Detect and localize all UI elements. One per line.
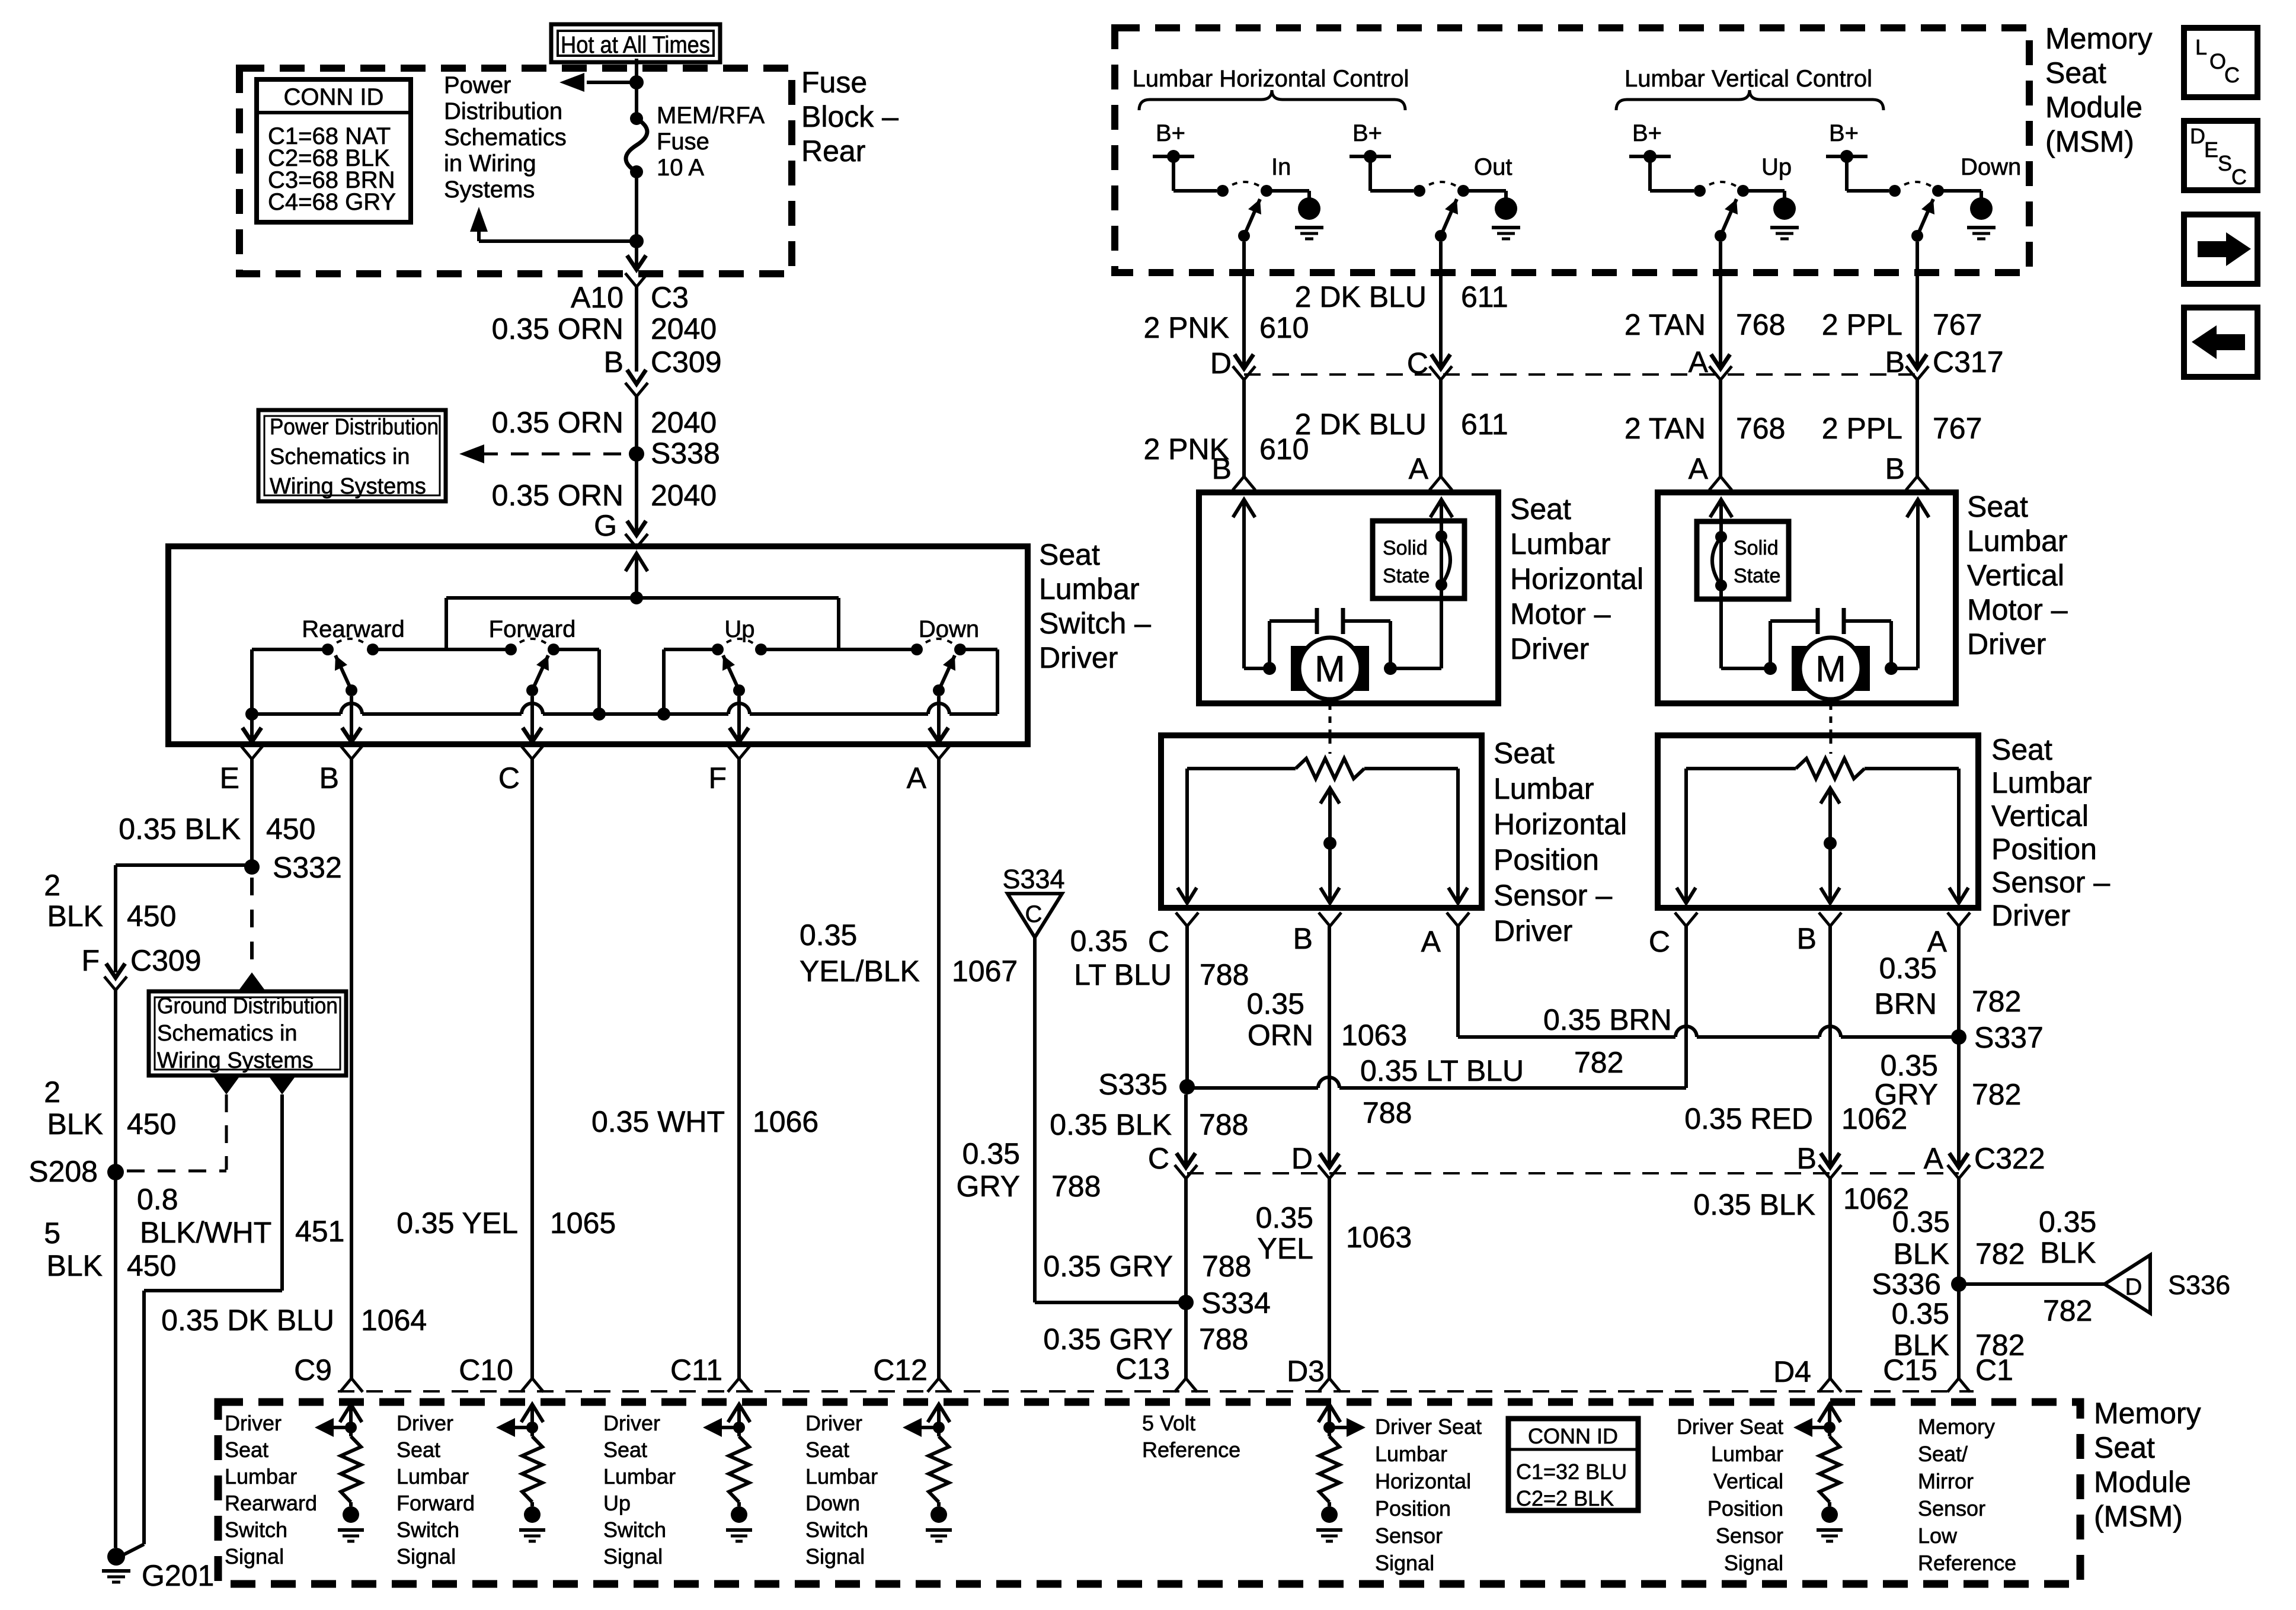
- svg-text:S336: S336: [2168, 1270, 2230, 1300]
- svg-text:BLK: BLK: [1893, 1237, 1949, 1270]
- off-page connector C S334: [1002, 864, 1064, 937]
- wire blade pivot to pin F: [730, 696, 749, 742]
- MSM input C10 (resistor+ground): [496, 1404, 545, 1541]
- svg-text:Driver: Driver: [1510, 632, 1589, 665]
- svg-text:Low: Low: [1918, 1523, 1958, 1548]
- svg-text:D: D: [1210, 347, 1232, 380]
- switch Down blade: [933, 655, 955, 696]
- svg-text:2040: 2040: [651, 479, 717, 512]
- svg-text:E: E: [220, 761, 239, 795]
- label 2 DK BLU / 611 / C (above C317): [1295, 280, 1508, 380]
- wire blade pivot to pin A: [929, 696, 948, 742]
- svg-text:0.35: 0.35: [1247, 987, 1304, 1020]
- ground (In): [1295, 197, 1323, 239]
- wire Down right contact to ground: [1938, 191, 1981, 198]
- svg-text:Driver: Driver: [225, 1411, 282, 1435]
- svg-text:782: 782: [1975, 1237, 2025, 1270]
- svg-text:Systems: Systems: [444, 177, 535, 203]
- svg-text:Seat: Seat: [603, 1438, 647, 1462]
- svg-text:B: B: [1212, 452, 1232, 485]
- wire C322 A to S336: [1957, 1178, 1961, 1284]
- svg-text:Rearward: Rearward: [225, 1491, 317, 1515]
- svg-text:F: F: [81, 944, 100, 977]
- svg-text:5: 5: [44, 1217, 60, 1250]
- svg-text:Horizontal: Horizontal: [1510, 562, 1643, 596]
- potentiometer (horizontal) right leg: [1448, 769, 1467, 903]
- svg-text:Sensor –: Sensor –: [1991, 866, 2110, 899]
- svg-text:782: 782: [1972, 1078, 2021, 1111]
- switch Rearward contacts: [322, 639, 379, 655]
- svg-text:Solid: Solid: [1383, 537, 1428, 559]
- svg-text:S336: S336: [1872, 1267, 1941, 1301]
- svg-text:C1=32 BLU: C1=32 BLU: [1516, 1459, 1627, 1484]
- svg-text:BLK: BLK: [47, 1108, 103, 1141]
- wire Rearward right to Forward left: [373, 648, 511, 651]
- label Driver Seat Lumbar Rearward Switch Signal: [225, 1411, 317, 1569]
- svg-text:1062: 1062: [1841, 1102, 1907, 1135]
- svg-text:2: 2: [44, 869, 60, 902]
- svg-text:Driver: Driver: [1039, 641, 1118, 674]
- wire S334 to C13: [1175, 1302, 1197, 1392]
- svg-text:Fuse: Fuse: [801, 66, 867, 99]
- svg-text:B: B: [1885, 345, 1905, 379]
- splice S338: [629, 437, 720, 470]
- svg-text:D: D: [2190, 124, 2205, 148]
- label Memory Seat Module (MSM) bottom: [2094, 1397, 2201, 1533]
- svg-text:Lumbar: Lumbar: [805, 1464, 878, 1489]
- svg-text:C: C: [1148, 1142, 1169, 1175]
- label Seat Lumbar Horizontal Motor - Driver: [1510, 492, 1643, 665]
- svg-text:Up: Up: [603, 1491, 631, 1515]
- svg-text:Distribution: Distribution: [444, 98, 562, 124]
- svg-text:Vertical: Vertical: [1967, 559, 2064, 592]
- splice S332: [244, 851, 342, 884]
- connector C309 inline on ground wire: [104, 964, 127, 990]
- CONN ID table (MSM bottom): [1508, 1419, 1638, 1510]
- wire A pin to C12: [928, 759, 950, 1392]
- svg-text:CONN ID: CONN ID: [284, 84, 384, 110]
- svg-text:2 PNK: 2 PNK: [1143, 311, 1229, 344]
- back arrow box: [2184, 308, 2257, 377]
- svg-text:S334: S334: [1002, 864, 1064, 894]
- splice S336: [1872, 1267, 1966, 1301]
- svg-text:0.35 ORN: 0.35 ORN: [492, 312, 623, 345]
- MSM input D4 (resistor+ground): [1793, 1404, 1843, 1541]
- wire C317 B to vertical motor B: [1906, 380, 1929, 490]
- pin A fork (vertical sensor): [1927, 913, 1970, 958]
- svg-text:C9: C9: [294, 1353, 332, 1387]
- svg-text:G: G: [594, 509, 617, 542]
- potentiometer (horizontal) left leg: [1178, 769, 1197, 903]
- wire Up right contact to ground: [1743, 191, 1785, 198]
- switch Down blade (vertical control): [1911, 199, 1934, 242]
- wire ground box to 451 elbow: [144, 1094, 282, 1544]
- svg-text:Position: Position: [1991, 833, 2097, 866]
- wire S336 to C15/C1: [1948, 1284, 1970, 1392]
- label MEM/RFA Fuse 10 A: [657, 103, 765, 181]
- svg-text:C: C: [1025, 901, 1043, 927]
- pin A fork and letter: [907, 745, 950, 795]
- label 0.35 GRY 788 (triangle wire): [957, 1137, 1101, 1203]
- svg-text:0.35: 0.35: [1256, 1201, 1313, 1234]
- wire C pin to C10: [521, 759, 543, 1392]
- svg-text:B: B: [1797, 922, 1817, 955]
- svg-text:Lumbar: Lumbar: [1494, 772, 1594, 805]
- label C12: [873, 1353, 928, 1387]
- svg-text:Down: Down: [919, 616, 979, 642]
- potentiometer (vertical) wiper: [1821, 735, 1840, 903]
- label Seat Lumbar Vertical Position Sensor - Driver: [1991, 733, 2110, 932]
- pin E fork and letter: [220, 745, 263, 795]
- wire S332 left elbow down to C309 F: [116, 865, 252, 972]
- junction to power distribution feed: [559, 73, 644, 92]
- svg-text:0.35: 0.35: [2039, 1205, 2096, 1238]
- connector at fuse block edge (male/female): [625, 255, 648, 287]
- svg-text:0.35 DK BLU: 0.35 DK BLU: [161, 1304, 334, 1337]
- svg-text:Power: Power: [444, 72, 511, 98]
- svg-text:Rearward: Rearward: [302, 616, 404, 642]
- svg-text:C309: C309: [651, 345, 722, 379]
- label Down: [919, 616, 979, 642]
- svg-text:610: 610: [1259, 311, 1309, 344]
- svg-text:Hot at All Times: Hot at All Times: [561, 32, 710, 58]
- label C10: [459, 1353, 513, 1387]
- svg-text:Driver: Driver: [1967, 628, 2046, 661]
- wire B+ to In left contact: [1173, 156, 1217, 191]
- svg-text:S208: S208: [28, 1155, 98, 1188]
- svg-text:A: A: [1421, 925, 1441, 958]
- svg-text:B: B: [1797, 1142, 1817, 1175]
- label Up: [724, 616, 754, 642]
- svg-text:0.35 YEL: 0.35 YEL: [396, 1206, 518, 1240]
- dashed wire ground box to S208: [127, 1094, 226, 1171]
- svg-text:Lumbar: Lumbar: [225, 1464, 297, 1489]
- switch feed entry arrow and wire: [625, 553, 647, 604]
- svg-text:2 DK BLU: 2 DK BLU: [1295, 280, 1427, 313]
- label 0.35 DK BLU / 1064: [161, 1304, 427, 1337]
- wire B pin to C9: [340, 759, 363, 1392]
- svg-text:0.35 BRN: 0.35 BRN: [1543, 1003, 1672, 1036]
- arrow below ground box (left): [213, 1077, 239, 1094]
- svg-text:Module: Module: [2094, 1465, 2191, 1499]
- svg-text:C: C: [2231, 165, 2247, 189]
- MSM input C11 (resistor+ground): [703, 1404, 752, 1541]
- svg-text:Mirror: Mirror: [1918, 1469, 1974, 1493]
- svg-text:In: In: [1271, 154, 1291, 180]
- svg-text:0.35: 0.35: [1892, 1297, 1949, 1330]
- label C15 / C1: [1883, 1353, 2013, 1387]
- svg-text:Forward: Forward: [396, 1491, 475, 1515]
- wire Down right elbow to bus: [960, 649, 997, 714]
- label 0.8 BLK/WHT / 451: [137, 1183, 344, 1249]
- potentiometer (vertical) track: [1686, 758, 1959, 779]
- svg-text:C13: C13: [1115, 1352, 1170, 1385]
- dashed arrow S338 to Power Distribution box: [459, 444, 629, 463]
- wire Forward right elbow to bus: [554, 649, 606, 721]
- label 0.35 GRY 782: [1875, 1049, 2022, 1111]
- label 0.35 BLK / 450: [119, 812, 315, 846]
- label Out: [1474, 154, 1512, 180]
- svg-text:Lumbar: Lumbar: [1991, 766, 2092, 799]
- label B / C309: [604, 345, 722, 379]
- wire S334 triangle to S334 splice: [1035, 937, 1186, 1302]
- svg-text:O: O: [2209, 49, 2226, 73]
- svg-text:LT BLU: LT BLU: [1074, 958, 1172, 991]
- switch Out contacts: [1414, 182, 1469, 197]
- arrow below ground box (right): [269, 1077, 295, 1094]
- Ground Distribution Schematics reference box: [149, 991, 346, 1076]
- svg-text:Switch: Switch: [603, 1518, 666, 1542]
- wire S337 to C322 A: [1948, 1037, 1970, 1179]
- svg-text:B: B: [319, 761, 339, 795]
- pin F fork and letter: [708, 745, 750, 795]
- svg-text:788: 788: [1051, 1170, 1101, 1203]
- wire C317 C to horizontal motor A: [1430, 380, 1452, 490]
- svg-text:Switch –: Switch –: [1039, 607, 1151, 640]
- wire C317 D to horizontal motor B: [1233, 380, 1255, 490]
- svg-text:Out: Out: [1474, 154, 1512, 180]
- wire In blade to C317 D: [1233, 242, 1255, 380]
- svg-text:0.35 GRY: 0.35 GRY: [1043, 1323, 1173, 1356]
- svg-text:Seat: Seat: [2045, 56, 2106, 89]
- connector at switch box G pin: [625, 521, 648, 548]
- label 0.35 BLK 782 (S336 branch): [2039, 1205, 2096, 1327]
- svg-text:0.35: 0.35: [800, 918, 857, 952]
- wire B+ to Up left contact: [1650, 156, 1694, 191]
- switch supply rail: [446, 598, 839, 649]
- svg-text:B+: B+: [1632, 120, 1662, 146]
- svg-text:Reference: Reference: [1142, 1438, 1240, 1462]
- pin C fork and letter: [498, 745, 543, 795]
- solid state switch (vertical motor): [1697, 521, 1789, 599]
- svg-text:S: S: [2218, 151, 2232, 175]
- label Down (vertical control): [1961, 154, 2021, 180]
- svg-text:M: M: [1815, 649, 1846, 690]
- wire C309 segment A10-B: [635, 287, 638, 372]
- pin B entry arrow (horizontal motor): [1233, 500, 1269, 668]
- switch Forward contacts: [505, 639, 559, 655]
- svg-text:Switch: Switch: [805, 1518, 868, 1542]
- label 0.35 GRY 788 (below S334): [1043, 1323, 1248, 1356]
- label 2 PPL / 767 / B (below C317): [1822, 412, 1982, 485]
- svg-text:F: F: [708, 761, 727, 795]
- svg-text:768: 768: [1736, 308, 1785, 341]
- label Seat Lumbar Vertical Motor - Driver: [1967, 490, 2068, 661]
- svg-text:2 DK BLU: 2 DK BLU: [1295, 408, 1427, 441]
- svg-text:0.35: 0.35: [1881, 1049, 1938, 1082]
- svg-text:BRN: BRN: [1874, 987, 1937, 1020]
- Seat Lumbar Switch - Driver box: [168, 546, 1028, 744]
- label 0.35 WHT / 1066: [591, 1105, 818, 1138]
- label C13: [1115, 1352, 1170, 1385]
- wire vertical sensor A to S337: [1957, 926, 1961, 1037]
- off-page connector D S336: [2105, 1255, 2230, 1313]
- svg-text:0.35: 0.35: [1879, 952, 1937, 985]
- svg-text:Fuse: Fuse: [657, 129, 709, 155]
- MSM input C9 (resistor+ground): [315, 1404, 364, 1541]
- svg-text:0.35 ORN: 0.35 ORN: [492, 406, 623, 439]
- label C (C322): [1148, 1142, 1169, 1175]
- svg-text:B+: B+: [1829, 120, 1859, 146]
- DESC box: [2184, 121, 2257, 190]
- potentiometer (vertical) right leg: [1949, 769, 1968, 903]
- svg-text:in Wiring: in Wiring: [444, 151, 536, 177]
- svg-text:Down: Down: [805, 1491, 860, 1515]
- svg-text:Lumbar: Lumbar: [603, 1464, 676, 1489]
- svg-text:Lumbar Horizontal Control: Lumbar Horizontal Control: [1133, 66, 1409, 92]
- wire B+ to Down left contact: [1847, 156, 1889, 191]
- label 0.35 YEL / 1065: [396, 1206, 616, 1240]
- svg-text:Driver: Driver: [603, 1411, 660, 1435]
- svg-text:Seat: Seat: [1991, 733, 2052, 766]
- svg-text:782: 782: [1972, 985, 2021, 1018]
- wire vertical sensor B to D4: [1819, 926, 1841, 1392]
- svg-text:C317: C317: [1933, 345, 2004, 379]
- svg-text:1062: 1062: [1843, 1182, 1909, 1215]
- svg-text:Seat: Seat: [396, 1438, 440, 1462]
- svg-text:1067: 1067: [952, 955, 1018, 988]
- Seat Lumbar Horizontal Position Sensor box: [1161, 735, 1482, 908]
- connector interface dashed line (bottom): [338, 1390, 1974, 1393]
- svg-text:1065: 1065: [550, 1206, 616, 1240]
- svg-text:Wiring Systems: Wiring Systems: [157, 1048, 314, 1073]
- svg-text:YEL: YEL: [1257, 1232, 1313, 1265]
- svg-text:B+: B+: [1352, 120, 1382, 146]
- label 2 TAN / 768 / A (above C317): [1625, 308, 1786, 379]
- label 0.35 ORN / 2040 (1): [492, 312, 717, 345]
- svg-text:C: C: [498, 761, 520, 795]
- svg-text:D3: D3: [1287, 1355, 1325, 1388]
- svg-text:G201: G201: [142, 1559, 214, 1592]
- Seat Lumbar Vertical Position Sensor box: [1658, 735, 1978, 908]
- Memory Seat Module dashed box (top): [1115, 28, 2029, 273]
- svg-text:Schematics in: Schematics in: [270, 444, 410, 469]
- svg-text:0.35 WHT: 0.35 WHT: [591, 1105, 725, 1138]
- Fuse Block - Rear dashed box: [239, 68, 792, 274]
- svg-text:Up: Up: [1761, 154, 1792, 180]
- splice S337: [1951, 1021, 2044, 1054]
- label 0.35 YEL 1063: [1256, 1201, 1412, 1265]
- label 0.35 RED 1062: [1684, 1102, 1907, 1135]
- svg-text:Vertical: Vertical: [1991, 799, 2089, 833]
- svg-text:C: C: [2224, 63, 2240, 87]
- svg-text:2040: 2040: [651, 312, 717, 345]
- switch In contacts: [1217, 182, 1272, 197]
- svg-text:0.35 BLK: 0.35 BLK: [1693, 1188, 1815, 1221]
- svg-text:450: 450: [127, 1249, 176, 1282]
- svg-text:1063: 1063: [1341, 1019, 1407, 1052]
- pin C fork (horizontal sensor): [1148, 913, 1198, 958]
- svg-text:A10: A10: [571, 281, 623, 314]
- wire C317 A to vertical motor A: [1709, 380, 1732, 490]
- pin B fork (horizontal sensor): [1293, 913, 1341, 955]
- wire F pin to C11: [728, 759, 750, 1392]
- svg-text:450: 450: [127, 900, 176, 933]
- wire C322 C to S334 splice: [1184, 1178, 1188, 1302]
- svg-text:5 Volt: 5 Volt: [1142, 1411, 1195, 1435]
- label Fuse Block - Rear: [801, 66, 898, 168]
- label 0.35 ORN / 2040 (2): [492, 406, 717, 439]
- svg-text:611: 611: [1461, 280, 1508, 313]
- svg-text:BLK: BLK: [2040, 1236, 2096, 1269]
- B+ terminal (Up): [1629, 120, 1671, 163]
- label Seat Lumbar Switch - Driver: [1039, 538, 1151, 674]
- svg-text:Driver: Driver: [1991, 899, 2070, 932]
- svg-text:Signal: Signal: [1375, 1551, 1434, 1575]
- label 0.35 C LT BLU 788: [1070, 924, 1249, 991]
- svg-text:Down: Down: [1961, 154, 2021, 180]
- label 0.35 BLK 788: [1050, 1108, 1248, 1141]
- svg-text:Lumbar: Lumbar: [1510, 527, 1611, 561]
- svg-text:MEM/RFA: MEM/RFA: [657, 103, 765, 129]
- svg-text:BLK: BLK: [46, 1249, 103, 1282]
- wire fuse to bottom of fuse block: [635, 172, 638, 266]
- svg-text:782: 782: [1574, 1046, 1623, 1079]
- svg-text:1064: 1064: [361, 1304, 427, 1337]
- ground G201: [102, 1548, 214, 1592]
- connector C317 dashed line: [1244, 373, 1917, 376]
- svg-text:Position: Position: [1494, 843, 1599, 876]
- connector C309 inline: [625, 370, 648, 396]
- svg-text:C: C: [1649, 925, 1670, 958]
- label 0.35 LT BLU 788 (S335 line): [1360, 1054, 1524, 1129]
- svg-text:Seat: Seat: [805, 1438, 849, 1462]
- label 0.35 ORN 1063: [1247, 987, 1408, 1052]
- potentiometer (horizontal) wiper: [1320, 735, 1339, 903]
- motor M (vertical): [1764, 608, 1898, 699]
- label A10 / C3: [571, 281, 689, 314]
- svg-text:State: State: [1734, 565, 1780, 587]
- svg-text:Seat: Seat: [1494, 737, 1555, 770]
- label 2 BLK / 450 (lower): [44, 1076, 176, 1141]
- svg-text:C10: C10: [459, 1353, 513, 1387]
- ground (Down): [1967, 197, 1996, 239]
- svg-text:Motor –: Motor –: [1510, 597, 1611, 630]
- label 0.35 YEL/BLK / 1067: [800, 918, 1018, 988]
- svg-text:0.35 LT BLU: 0.35 LT BLU: [1360, 1054, 1524, 1087]
- label D (C322): [1291, 1142, 1313, 1175]
- svg-text:ORN: ORN: [1248, 1019, 1313, 1052]
- label 2 TAN / 768 / A (below C317): [1625, 412, 1786, 485]
- svg-text:D4: D4: [1773, 1355, 1811, 1388]
- Hot at All Times box: [551, 24, 720, 62]
- label Rearward: [302, 616, 404, 642]
- label 0.35 BRN 782 (horizontal run): [1543, 1003, 1672, 1079]
- wire Out blade to C317 C: [1430, 242, 1452, 380]
- label 5 BLK / 450: [44, 1217, 176, 1282]
- svg-text:BLK/WHT: BLK/WHT: [140, 1216, 271, 1249]
- wire horizontal sensor B to D3: [1318, 926, 1341, 1392]
- wire E pin to S332: [250, 759, 254, 867]
- svg-text:B: B: [1885, 452, 1905, 485]
- wire S336 branch to D triangle: [1959, 1282, 2105, 1286]
- svg-text:2040: 2040: [651, 406, 717, 439]
- svg-text:782: 782: [2043, 1294, 2092, 1327]
- svg-text:2 TAN: 2 TAN: [1625, 308, 1706, 341]
- svg-text:0.8: 0.8: [137, 1183, 178, 1216]
- svg-text:Seat: Seat: [1967, 490, 2028, 523]
- wire Up right to Down left: [761, 648, 917, 651]
- Seat Lumbar Vertical Motor box: [1658, 492, 1956, 703]
- wire bus elbow to Up left: [657, 649, 718, 721]
- wire F C309 down to S208 and G201: [114, 990, 117, 1548]
- label Driver Seat Lumbar Up Switch Signal: [603, 1411, 676, 1569]
- label C11: [670, 1353, 722, 1387]
- svg-text:10 A: 10 A: [657, 155, 704, 181]
- motor M (horizontal) with capacitor: [1263, 608, 1397, 699]
- label 2 DK BLU / 611 / A (below C317): [1295, 408, 1508, 485]
- label F / C309: [81, 944, 201, 977]
